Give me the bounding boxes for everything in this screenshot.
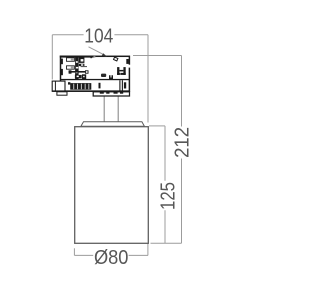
dimension 104 line xyxy=(52,35,181,256)
label box 1 xyxy=(67,58,75,62)
dim 104 left extension xyxy=(51,35,53,80)
adapter top edge thick band xyxy=(60,56,94,58)
adapter bottom edge xyxy=(52,90,130,91)
leader line xyxy=(89,47,106,56)
adapter right edge notch xyxy=(128,65,130,68)
rail bar xyxy=(69,71,89,73)
lever attach xyxy=(68,82,70,84)
center step xyxy=(93,92,129,96)
top edge bump xyxy=(90,56,92,59)
stem xyxy=(104,96,118,123)
left wall block lower xyxy=(60,69,63,75)
svg-text:Ø80: Ø80 xyxy=(94,247,129,269)
M mark xyxy=(109,75,113,79)
step block 3 xyxy=(114,92,118,94)
rail end square left xyxy=(69,70,72,73)
left foot xyxy=(57,92,67,95)
small rounded rect xyxy=(101,74,106,77)
adapter body xyxy=(52,56,130,97)
cylinder body xyxy=(75,127,149,244)
dim 212 line xyxy=(181,56,183,244)
adapter top edge notch xyxy=(93,56,95,57)
svg-text:125: 125 xyxy=(157,182,179,210)
right dark block xyxy=(124,82,126,88)
step block 2 xyxy=(106,92,109,94)
tick bar mid xyxy=(99,83,101,89)
latch lever inner line xyxy=(54,82,56,91)
dim 125 top extension xyxy=(149,125,165,127)
plate xyxy=(81,122,144,127)
dim diam80 left tick xyxy=(73,248,75,255)
dim 104 right extension xyxy=(147,35,149,123)
svg-text:104: 104 xyxy=(84,26,113,48)
dim 125 line xyxy=(164,126,166,243)
dim diam80 line xyxy=(74,254,148,256)
label box 2 xyxy=(67,66,75,69)
dims bottom extension xyxy=(151,242,182,244)
rail end square right xyxy=(85,70,89,73)
step block 4 xyxy=(120,92,123,94)
comb strip xyxy=(70,83,91,90)
terminal block xyxy=(117,67,126,75)
contact column xyxy=(75,57,79,80)
lower cluster xyxy=(75,75,82,78)
leader arrowhead xyxy=(102,53,108,57)
double bars right xyxy=(119,80,120,90)
left wall block upper xyxy=(60,59,63,65)
latch lever xyxy=(52,81,65,91)
right wall block xyxy=(126,59,129,64)
upper right cluster xyxy=(79,57,85,66)
svg-text:212: 212 xyxy=(172,127,194,158)
dim diam80 right tick xyxy=(147,244,149,256)
interior divider line xyxy=(60,79,129,80)
screw mark xyxy=(114,57,118,61)
cluster side line xyxy=(81,66,87,68)
step block 1 xyxy=(100,92,104,94)
dim 212 top extension xyxy=(133,55,182,57)
